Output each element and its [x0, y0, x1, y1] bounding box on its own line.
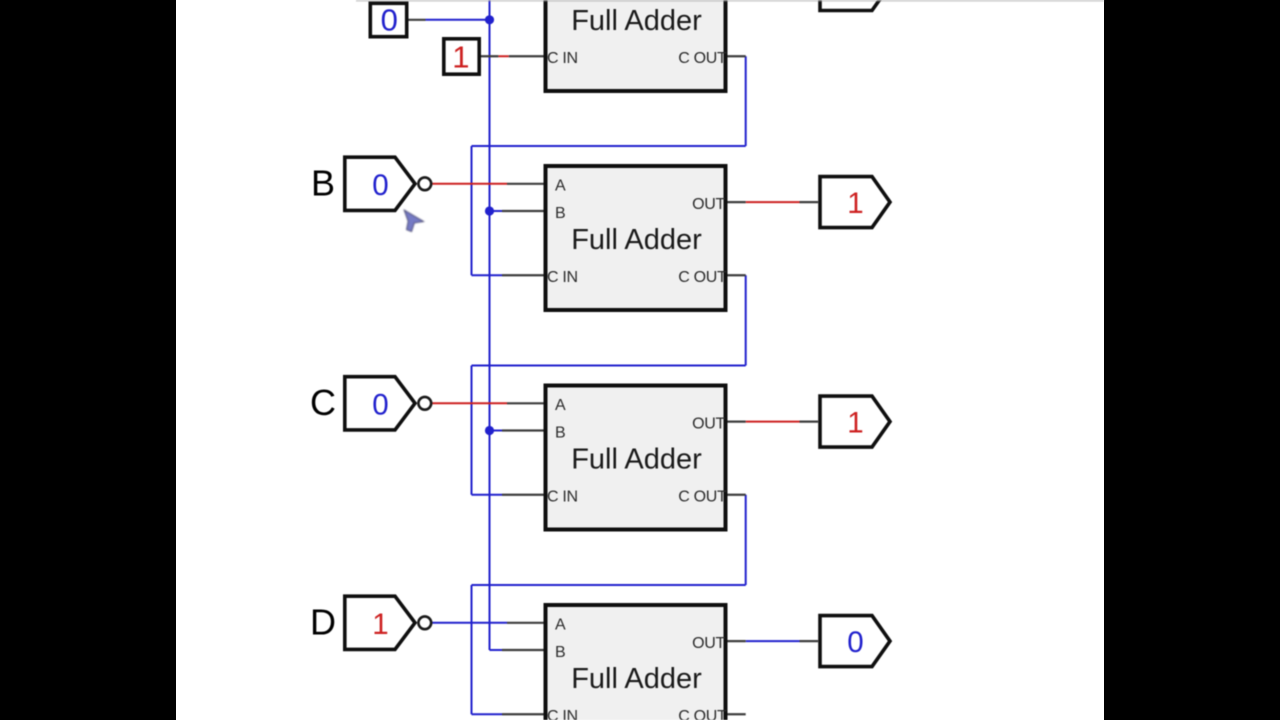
svg-text:0: 0: [847, 626, 863, 659]
svg-text:Full Adder: Full Adder: [571, 224, 702, 256]
U2 pin B stub: [502, 210, 544, 212]
junction IN0/bus: [485, 15, 494, 24]
svg-text:B: B: [555, 424, 566, 441]
svg-text:C OUT: C OUT: [678, 50, 727, 67]
U2 pin C OUT stub: [728, 274, 746, 276]
U2 pin OUT stub: [728, 201, 746, 203]
U1 pin C OUT stub: [728, 55, 746, 57]
U1 pin C IN stub: [509, 55, 544, 57]
input pin CIN1 value 1: [444, 39, 479, 75]
full adder U3: [546, 386, 728, 530]
svg-text:OUT: OUT: [692, 196, 725, 213]
wire bus stub to U3 pin B: [490, 430, 503, 432]
S1 pin stub: [800, 201, 819, 203]
full adder U4: [546, 605, 728, 720]
S2 pin stub: [800, 421, 819, 423]
output pin S3 value 0: [820, 616, 890, 667]
svg-text:0: 0: [372, 169, 388, 202]
input pin C value 0 (inverted): [310, 377, 431, 430]
output pin S1 value 1: [820, 177, 890, 228]
svg-text:C IN: C IN: [547, 708, 578, 720]
U4 pin C OUT stub: [728, 713, 746, 715]
svg-text:B: B: [555, 644, 566, 661]
S3 pin stub: [800, 640, 819, 642]
svg-text:C IN: C IN: [547, 50, 578, 67]
svg-text:C OUT: C OUT: [678, 269, 727, 286]
svg-text:OUT: OUT: [692, 635, 725, 652]
svg-text:C OUT: C OUT: [678, 708, 727, 720]
wire main vertical bus from IN0 down to U4 pin B: [490, 0, 503, 650]
U3 pin OUT stub: [728, 421, 746, 423]
full adder U1: [546, 0, 728, 91]
svg-text:Full Adder: Full Adder: [571, 443, 702, 475]
svg-text:OUT: OUT: [692, 415, 725, 432]
svg-text:C OUT: C OUT: [678, 489, 727, 506]
svg-text:Full Adder: Full Adder: [571, 663, 702, 695]
svg-text:C: C: [310, 382, 336, 423]
svg-text:1: 1: [372, 608, 388, 641]
svg-text:0: 0: [381, 3, 398, 38]
U4 pin A stub: [507, 622, 544, 624]
svg-text:1: 1: [847, 187, 863, 220]
svg-text:0: 0: [372, 389, 388, 422]
svg-text:B: B: [311, 162, 335, 203]
wire carry loop U2 C OUT to U3 C IN: [472, 275, 746, 495]
U3 pin C OUT stub: [728, 494, 746, 496]
U4 pin OUT stub: [728, 640, 746, 642]
wire U2 OUT to S1 (red): [746, 201, 800, 203]
top edge artifact line: [356, 0, 1104, 2]
svg-text:A: A: [555, 397, 566, 414]
U3 pin C IN stub: [502, 494, 544, 496]
wire pin D bubble to U4 pin A (blue): [433, 622, 508, 624]
svg-text:A: A: [555, 178, 566, 195]
input pin IN0 value 0: [370, 3, 406, 38]
input pin D value 1 (inverted): [310, 596, 431, 649]
CIN1 pin stub: [481, 55, 498, 57]
input pin B value 0 (inverted): [311, 157, 431, 210]
U3 pin B stub: [502, 429, 544, 431]
output pin S2 value 1: [820, 396, 890, 447]
U3 pin A stub: [507, 402, 544, 404]
svg-text:D: D: [310, 601, 336, 642]
svg-text:1: 1: [452, 40, 469, 75]
wire pin B bubble to U2 pin A (red): [433, 183, 508, 185]
wire bus stub to U2 pin B: [490, 210, 503, 212]
wire IN0 to bus junction: [426, 19, 490, 21]
U4 pin C IN stub: [502, 713, 544, 715]
svg-text:A: A: [555, 617, 566, 634]
wire carry loop U1 C OUT to U2 C IN: [472, 56, 746, 275]
U2 pin C IN stub: [502, 274, 544, 276]
svg-text:B: B: [555, 205, 566, 222]
wire U3 OUT to S2 (red): [746, 421, 800, 423]
svg-text:Full Adder: Full Adder: [571, 5, 702, 37]
svg-text:C IN: C IN: [547, 269, 578, 286]
wire pin C bubble to U3 pin A (red): [433, 402, 508, 404]
junction bus/U2 B: [485, 206, 494, 215]
wire CIN1 constant to U1 C IN (red): [498, 55, 508, 57]
mouse cursor: [404, 210, 423, 231]
output pin S0 (cut off at top edge): [820, 0, 890, 11]
junction bus/U3 B: [485, 426, 494, 435]
IN0 pin stub: [409, 19, 426, 21]
wire U4 OUT to S3 (blue): [746, 640, 800, 642]
full adder U2: [546, 166, 728, 310]
U2 pin A stub: [507, 183, 544, 185]
svg-text:C IN: C IN: [547, 489, 578, 506]
wire carry loop U3 C OUT to U4 C IN: [472, 495, 746, 715]
U4 pin B stub: [502, 649, 544, 651]
svg-text:1: 1: [847, 407, 863, 440]
